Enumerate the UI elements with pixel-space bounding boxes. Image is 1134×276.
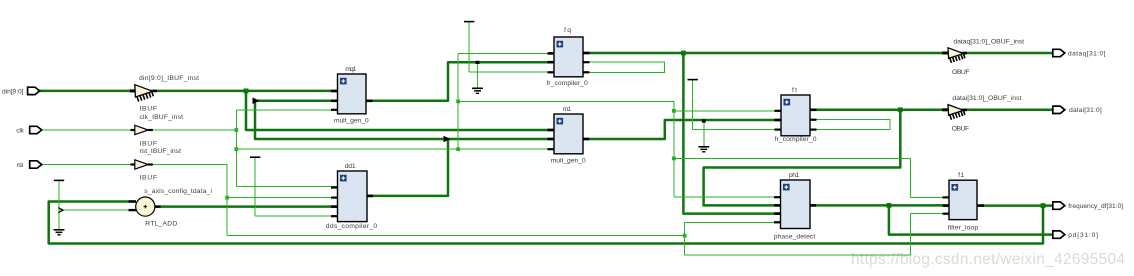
svg-text:RTL_ADD: RTL_ADD	[145, 221, 177, 228]
svg-text:filter_loop: filter_loop	[948, 225, 979, 232]
svg-text:din[9:0]_IBUF_inst: din[9:0]_IBUF_inst	[139, 75, 199, 82]
svg-text:fr_compiler_0: fr_compiler_0	[775, 136, 817, 143]
svg-text:OBUF: OBUF	[952, 126, 970, 133]
svg-text:datai[31:0]_OBUF_inst: datai[31:0]_OBUF_inst	[952, 95, 1021, 102]
svg-text:IBUF: IBUF	[140, 175, 158, 182]
svg-text:fq: fq	[564, 27, 571, 34]
svg-text:OBUF: OBUF	[952, 69, 970, 76]
svg-text:https://blog.csdn.net/weixin_4: https://blog.csdn.net/weixin_42695504	[851, 251, 1125, 268]
svg-text:mult_gen_0: mult_gen_0	[551, 158, 586, 165]
svg-text:datai[31:0]: datai[31:0]	[1069, 107, 1102, 114]
svg-text:IBUF: IBUF	[140, 106, 158, 113]
svg-text:dataq[31:0]: dataq[31:0]	[1068, 50, 1106, 57]
svg-text:clk: clk	[16, 127, 24, 134]
svg-text:frequency_df[31:0]: frequency_df[31:0]	[1068, 203, 1123, 210]
svg-text:s_axis_config_tdata_i: s_axis_config_tdata_i	[144, 188, 212, 195]
svg-text:mq1: mq1	[345, 66, 356, 73]
svg-text:rst: rst	[17, 162, 24, 169]
svg-text:ph1: ph1	[789, 172, 800, 179]
svg-text:phase_detect: phase_detect	[774, 233, 816, 240]
svg-text:fr_compiler_0: fr_compiler_0	[547, 80, 589, 87]
svg-text:din[9:0]: din[9:0]	[2, 88, 24, 95]
svg-text:IBUF: IBUF	[140, 141, 158, 148]
svg-text:rst_IBUF_inst: rst_IBUF_inst	[140, 148, 182, 155]
svg-text:f1: f1	[958, 172, 964, 179]
svg-text:clk_IBUF_inst: clk_IBUF_inst	[140, 114, 184, 121]
svg-text:dds_compiler_0: dds_compiler_0	[326, 223, 378, 230]
svg-text:dataq[31:0]_OBUF_inst: dataq[31:0]_OBUF_inst	[953, 39, 1024, 46]
svg-text:dd1: dd1	[345, 163, 356, 170]
svg-text:pd[31:0]: pd[31:0]	[1068, 232, 1098, 239]
svg-text:m1: m1	[563, 106, 571, 113]
svg-text:ft: ft	[792, 87, 797, 94]
svg-text:mult_gen_0: mult_gen_0	[334, 118, 369, 125]
